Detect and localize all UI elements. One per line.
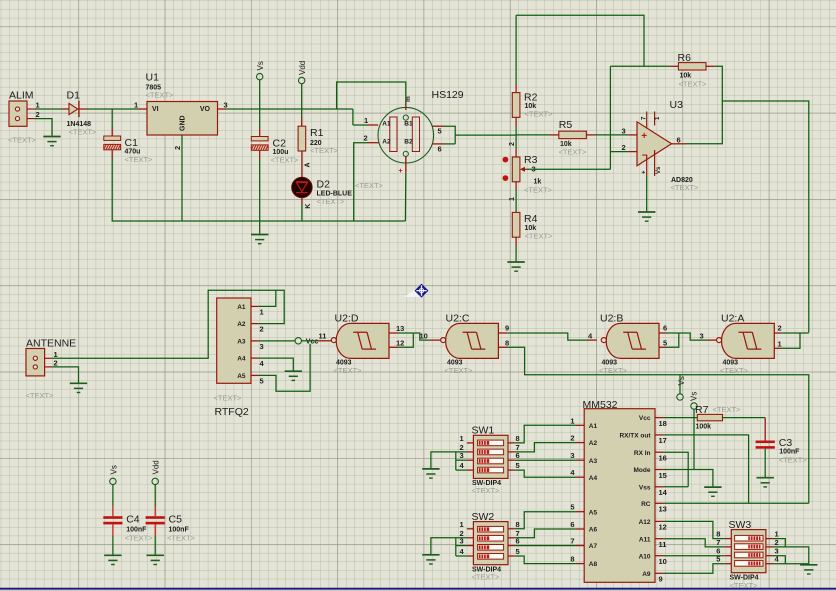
svg-text:8: 8	[516, 520, 520, 529]
wire A10 to SW3.6	[664, 555, 725, 557]
ground (U3)	[638, 212, 655, 221]
svg-text:U2:B: U2:B	[600, 312, 623, 324]
svg-text:A1: A1	[382, 121, 391, 128]
svg-text:6: 6	[677, 135, 681, 144]
pin stub A11 (MM532)	[655, 538, 664, 540]
svg-text:A2: A2	[589, 440, 598, 447]
wire ANTENNE.1 to RTFQ2 A2 loop	[52, 290, 284, 358]
svg-text:Mode: Mode	[634, 467, 651, 474]
svg-text:Vdd: Vdd	[298, 61, 307, 75]
svg-text:A2: A2	[382, 139, 391, 146]
svg-text:−: −	[642, 150, 648, 161]
svg-text:11: 11	[319, 331, 327, 340]
wire SW2.8 to MM532 A5	[515, 512, 576, 529]
svg-text:GND: GND	[180, 115, 187, 131]
svg-text:+: +	[398, 166, 403, 175]
wire RTFQ2 A5 loop to Vcc terminal node	[258, 344, 310, 392]
wire U2:D 12 tie	[398, 333, 413, 347]
wire SW1 tie vertical	[455, 452, 457, 470]
svg-text:5: 5	[570, 503, 574, 512]
wire Vdd terminal through +V rail to R1	[301, 84, 303, 118]
svg-text:RC: RC	[641, 501, 651, 508]
wire SW1.2 to ground	[431, 452, 467, 468]
pin stub right 5 (SW1)	[508, 469, 515, 471]
wire R2 top	[515, 15, 517, 84]
capacitor C1	[104, 136, 121, 150]
dip switch SW3	[731, 530, 766, 573]
svg-text:3: 3	[570, 451, 574, 460]
svg-text:ANTENNE: ANTENNE	[26, 337, 76, 349]
wire U2:C 9 to U2:B output	[507, 333, 587, 340]
pin stub U2:A output 3	[708, 339, 717, 341]
svg-text:MM532: MM532	[583, 399, 618, 411]
wire SW1.5 to MM532 A4	[515, 470, 576, 477]
wire RTFQ2 A3 to Vcc terminal	[258, 340, 295, 342]
svg-text:12: 12	[659, 523, 667, 532]
pin stub C1 bottom	[111, 150, 113, 159]
svg-text:1: 1	[509, 197, 516, 201]
resistor R4	[512, 212, 520, 237]
wire Vs terminal to C4	[112, 485, 114, 506]
pin stub A5 (RTFQ2)	[251, 374, 258, 376]
pin stub R2 bottom	[515, 117, 517, 126]
pin stub A10 (MM532)	[655, 555, 664, 557]
svg-text:<TEXT>: <TEXT>	[334, 366, 363, 375]
ground (C3)	[757, 478, 774, 487]
wire Vs terminal down to Mode	[693, 409, 695, 469]
wire RC long net	[664, 502, 809, 504]
svg-text:2: 2	[775, 538, 779, 547]
svg-text:A5: A5	[237, 373, 246, 380]
wire SW2.5 to MM532 A8	[515, 556, 576, 564]
IC MM532	[584, 409, 655, 583]
wire top feedback	[516, 15, 644, 66]
pin stub RX/TX out (MM532)	[655, 434, 664, 436]
svg-text:<TEXT>: <TEXT>	[310, 146, 339, 155]
svg-text:C1: C1	[125, 137, 139, 149]
svg-text:1: 1	[54, 350, 58, 359]
wire U2:A 1 tie	[781, 333, 800, 348]
wire to U3 inverting input	[610, 151, 628, 153]
pin stub R3 top	[515, 149, 517, 158]
wire Vdd terminal to C5	[154, 485, 156, 506]
svg-text:5: 5	[516, 461, 520, 470]
pin stub HS129 pin1	[368, 124, 379, 126]
svg-text:3: 3	[460, 451, 464, 460]
svg-text:5: 5	[260, 376, 264, 385]
svg-text:Vcc: Vcc	[306, 338, 319, 345]
wire HS129.1 up to +V rail	[352, 109, 354, 125]
svg-text:<TEXT>: <TEXT>	[525, 232, 554, 241]
power terminal Vs (C4)	[110, 478, 116, 484]
wire ANTENNE.2 to ground	[52, 367, 78, 383]
pin stub A8 (MM532)	[576, 563, 585, 565]
wire SW1.4 tie	[456, 469, 467, 471]
wire D2 to ground rail	[301, 205, 303, 221]
wire SW3.2 to ground	[773, 547, 809, 564]
wire SW2.4 tie	[456, 555, 467, 557]
ground (SW1)	[422, 469, 439, 478]
svg-text:2: 2	[570, 434, 574, 443]
pin stub HS129 pin2	[368, 142, 379, 144]
svg-text:D2: D2	[317, 179, 331, 191]
pin stub left 7 (SW3)	[725, 546, 732, 548]
wire SW3.4 to ground net	[773, 563, 809, 565]
pin stub A2 (RTFQ2)	[251, 323, 258, 325]
pin stub U1 pin1	[139, 108, 148, 110]
pin stub left 1 (SW1)	[467, 442, 474, 444]
svg-text:6: 6	[438, 144, 442, 153]
pin stub U2:C output 10	[429, 339, 441, 341]
svg-text:ALIM: ALIM	[9, 90, 34, 102]
svg-text:R6: R6	[678, 52, 692, 64]
svg-text:2: 2	[509, 142, 516, 146]
svg-text:<TEXT>: <TEXT>	[271, 155, 300, 164]
gate U2:D (4093)	[331, 323, 389, 358]
wire U2:B 6	[667, 332, 679, 334]
pin stub C2 top	[259, 128, 261, 137]
svg-text:A4: A4	[237, 356, 246, 363]
pin stub Mode (MM532)	[655, 469, 664, 471]
svg-text:8: 8	[505, 339, 509, 348]
svg-text:+: +	[641, 131, 647, 142]
svg-text:A3: A3	[237, 339, 246, 346]
svg-text:A9: A9	[642, 571, 651, 578]
pin stub C5 bottom	[154, 524, 156, 536]
power terminal Vs (mid)	[677, 394, 683, 400]
wire C4 to ground	[112, 536, 114, 555]
pin stub A2 (MM532)	[576, 442, 585, 444]
svg-text:U3: U3	[670, 99, 684, 111]
svg-text:<TEXT>: <TEXT>	[472, 486, 501, 495]
wire HS129 bottom to ground rail	[404, 173, 406, 221]
svg-text:3: 3	[622, 126, 626, 135]
wire HS129.6	[444, 143, 455, 145]
svg-text:1: 1	[364, 116, 368, 125]
gate U2:A (4093)	[717, 323, 775, 358]
wire A9 to SW3.5	[664, 564, 725, 574]
svg-text:B1: B1	[404, 121, 413, 128]
svg-text:<TEXT>: <TEXT>	[26, 391, 55, 400]
wire SW2 tie vertical	[455, 538, 457, 556]
wire node to C1	[111, 109, 113, 128]
svg-text:VO: VO	[200, 106, 211, 113]
svg-text:Vs: Vs	[256, 61, 265, 70]
pin stub left 2 (SW1)	[467, 451, 474, 453]
pin stub right 6 (SW1)	[508, 459, 515, 461]
pin stub R3 bottom	[515, 181, 517, 190]
wire R7 to C3 node	[723, 417, 766, 419]
svg-text:U2:A: U2:A	[721, 312, 744, 324]
svg-text:14: 14	[659, 488, 668, 497]
origin marker (blue diamond)	[404, 284, 429, 298]
pin stub U2:D 12	[389, 346, 398, 348]
svg-text:<TEXT>: <TEXT>	[355, 181, 384, 190]
pin stub R6 right	[706, 65, 715, 67]
svg-text:VI: VI	[152, 106, 159, 113]
svg-text:1: 1	[460, 434, 464, 443]
svg-text:15: 15	[659, 471, 667, 480]
svg-text:A8: A8	[589, 561, 598, 568]
svg-text:7: 7	[716, 538, 720, 547]
svg-text:Vcc: Vcc	[639, 415, 651, 422]
svg-text:A12: A12	[639, 519, 651, 526]
svg-text:2: 2	[622, 143, 626, 152]
pin stub left 2 (SW2)	[467, 537, 474, 539]
ground (C4)	[104, 555, 121, 564]
wire ALIM.2 to ground	[35, 119, 52, 136]
pin stub Vcc (MM532)	[655, 417, 664, 419]
svg-text:A1: A1	[237, 304, 246, 311]
svg-text:1: 1	[460, 520, 464, 529]
svg-text:A5: A5	[589, 509, 598, 516]
pin stub D2 cathode	[301, 198, 303, 205]
regulator U1 7805	[147, 102, 218, 136]
wire C2 to ground	[259, 159, 261, 234]
pin stub U2:B 5	[659, 346, 667, 348]
resistor R5	[559, 131, 587, 138]
power terminal Vdd (top)	[299, 77, 305, 83]
pin stub A7 (MM532)	[576, 545, 585, 547]
ground (C5)	[147, 555, 164, 564]
pin stub R4 bottom	[515, 237, 517, 245]
pin stub A6 (MM532)	[576, 528, 585, 530]
pin stub U1 VO	[218, 108, 227, 110]
pin stub C1 top	[111, 128, 113, 137]
svg-text:Vss: Vss	[639, 484, 651, 491]
wire R6 left vertical / inverting net	[609, 66, 611, 169]
wire HS129.5 tie	[444, 126, 455, 144]
wire U2:B 5 tie	[667, 333, 679, 347]
svg-text:2: 2	[364, 134, 368, 143]
svg-text:<TEXT>: <TEXT>	[8, 136, 37, 145]
wire ALIM.1 to D1 anode	[35, 108, 62, 110]
svg-text:6: 6	[516, 537, 520, 546]
wire node to R5	[516, 134, 550, 136]
pin stub C3 top	[764, 418, 766, 441]
wire R6 left to vertical	[610, 65, 669, 67]
wire SW3.1 tie	[773, 539, 786, 547]
svg-text:100k: 100k	[696, 423, 712, 430]
wire U2:C 8 long net to MM532 RC	[507, 347, 808, 503]
svg-text:13: 13	[396, 324, 404, 333]
pin stub left 1 (SW2)	[467, 528, 474, 530]
svg-text:R2: R2	[524, 92, 538, 104]
wire U1 GND to ground rail	[181, 135, 183, 221]
ground (SW2)	[422, 555, 439, 564]
pin stub R1 to D2 anode	[301, 151, 303, 177]
svg-text:1: 1	[134, 100, 138, 109]
work area bottom border	[0, 588, 836, 590]
svg-text:2: 2	[778, 324, 782, 333]
svg-text:Vs: Vs	[656, 166, 662, 174]
pin stub A3 (RTFQ2)	[251, 340, 258, 342]
svg-text:RX In: RX In	[634, 450, 651, 457]
svg-text:10k: 10k	[680, 72, 692, 79]
pot adjust dot lower (R3)	[503, 175, 509, 181]
svg-text:2: 2	[260, 325, 264, 334]
svg-text:1: 1	[36, 101, 40, 110]
svg-text:<TEXT>: <TEXT>	[779, 456, 808, 465]
pin stub HS129 top	[405, 102, 407, 110]
wire R6 right to output node	[715, 66, 723, 101]
wire A11 to SW3.7	[664, 539, 725, 547]
svg-text:<TEXT>: <TEXT>	[214, 393, 243, 402]
svg-text:<TEXT>: <TEXT>	[146, 90, 175, 99]
svg-text:6: 6	[663, 324, 667, 333]
svg-text:<TEXT>: <TEXT>	[445, 366, 474, 375]
svg-text:2: 2	[36, 110, 40, 119]
pin stub U2:D output 11	[318, 340, 332, 342]
wire U2:D inputs to U2:C output	[413, 333, 429, 340]
LED D2	[292, 177, 312, 197]
svg-text:A2: A2	[237, 321, 246, 328]
wire SW1.3 tie	[456, 459, 467, 461]
wire Vs terminal to node	[259, 80, 261, 128]
svg-text:<TEXT>: <TEXT>	[125, 155, 154, 164]
pin stub R6 left	[670, 65, 679, 67]
svg-text:Vs: Vs	[690, 392, 699, 401]
wire to Vs terminal (mid)	[679, 375, 681, 394]
pin stub A5 (MM532)	[576, 511, 585, 513]
wire RX/TX out net	[664, 435, 749, 503]
dip switch SW1	[473, 435, 508, 478]
gate U2:C (4093)	[441, 323, 499, 358]
wire Vcc terminal to U2:D output	[302, 340, 318, 342]
svg-text:C4: C4	[126, 514, 140, 526]
svg-text:8: 8	[516, 434, 520, 443]
resistor R1	[298, 126, 306, 151]
wire C3 to ground	[764, 449, 766, 477]
wire SW1.6 to MM532 A3	[515, 459, 576, 461]
wire branch to RTFQ2 A1	[258, 290, 275, 306]
sensor HS129 body	[378, 107, 434, 163]
op-amp U3	[637, 112, 672, 177]
pin stub U2:B output 4	[588, 339, 597, 341]
svg-text:3: 3	[260, 342, 264, 351]
resistor R6	[678, 63, 706, 70]
pin stub left 5 (SW3)	[725, 563, 732, 565]
svg-text:A3: A3	[589, 458, 598, 465]
wire U2:D 13	[398, 332, 413, 334]
wire +V rail from U1	[226, 108, 353, 110]
svg-text:A7: A7	[589, 543, 598, 550]
pin stub right 3 (SW3)	[766, 555, 773, 557]
svg-text:HS129: HS129	[432, 89, 464, 101]
pin stub left 4 (SW2)	[467, 555, 474, 557]
pin stub C4 top	[112, 506, 114, 517]
wire RX In to Vss tie	[664, 452, 689, 487]
ground (Mode)	[704, 487, 721, 496]
gate U2:B (4093)	[601, 323, 659, 358]
wire SW3.3 tie	[773, 556, 786, 564]
pin stub U2:C 8	[498, 346, 507, 348]
wire R5 to U3 +	[595, 134, 628, 136]
pin stub U2:B 6	[659, 332, 667, 334]
pin stub left 4 (SW1)	[467, 469, 474, 471]
power terminal Vdd (C5)	[152, 478, 158, 484]
svg-text:<TEXT>: <TEXT>	[167, 533, 196, 542]
svg-text:100nF: 100nF	[126, 526, 147, 533]
svg-text:<TEXT>: <TEXT>	[679, 79, 708, 88]
pin stub left 3 (SW2)	[467, 545, 474, 547]
svg-text:RTFQ2: RTFQ2	[215, 406, 249, 418]
svg-text:18: 18	[659, 419, 667, 428]
pin stub HS129 bottom	[405, 157, 407, 173]
svg-text:12: 12	[396, 339, 404, 348]
connector J2 ANTENNE	[26, 349, 52, 376]
ground (ALIM)	[43, 137, 60, 146]
wire U3 V- to ground	[646, 176, 648, 211]
pin stub R5 left	[550, 134, 559, 136]
diode D1	[69, 101, 79, 118]
wire U2:B inputs to U2:A output	[679, 333, 708, 340]
svg-text:100nF: 100nF	[779, 448, 800, 455]
wire MM532 Vcc to R7	[664, 417, 698, 419]
pin stub A1 (RTFQ2)	[251, 305, 258, 307]
pin stub U3 pin3	[628, 134, 637, 136]
pin stub right 2 (SW3)	[766, 546, 773, 548]
pin stub R1 top	[301, 118, 303, 127]
svg-text:A10: A10	[639, 553, 651, 560]
svg-text:A11: A11	[639, 536, 651, 543]
ground (SW3)	[800, 565, 817, 574]
wire Mode to ground	[664, 470, 713, 487]
svg-text:Vs: Vs	[109, 465, 118, 474]
svg-text:<TEXT>: <TEXT>	[599, 366, 628, 375]
svg-text:R1: R1	[310, 127, 324, 139]
svg-text:U2:D: U2:D	[335, 312, 359, 324]
svg-text:R5: R5	[559, 119, 573, 131]
svg-text:C2: C2	[273, 138, 287, 150]
svg-text:1: 1	[260, 307, 264, 316]
connector J1 ALIM	[9, 101, 35, 126]
svg-text:7: 7	[570, 537, 574, 546]
svg-text:<TEXT>: <TEXT>	[720, 366, 749, 375]
pin stub Vss (MM532)	[655, 486, 664, 488]
pin stub right 8 (SW2)	[508, 528, 515, 530]
wire RTFQ2 A4 to ground	[258, 358, 293, 370]
svg-text:Vdd: Vdd	[152, 460, 161, 474]
svg-text:D1: D1	[67, 90, 81, 102]
svg-text:11: 11	[659, 540, 667, 549]
pin stub A4 (RTFQ2)	[251, 357, 258, 359]
wire U2:A 2 to feedback	[781, 332, 809, 334]
capacitor C4	[103, 516, 122, 524]
wire R4 to ground	[515, 246, 517, 262]
svg-text:<TEXT>: <TEXT>	[559, 147, 588, 156]
pin stub U2:A 1	[774, 347, 781, 349]
pin stub right 4 (SW3)	[766, 563, 773, 565]
svg-text:<TEXT>: <TEXT>	[317, 197, 346, 206]
wire +V rail to HS129 top pin	[337, 82, 406, 109]
svg-text:5: 5	[438, 127, 442, 136]
svg-text:8: 8	[570, 555, 574, 564]
svg-text:2: 2	[173, 146, 182, 150]
potentiometer R3 body	[512, 157, 520, 182]
pin stub right 1 (SW3)	[766, 538, 773, 540]
power terminal Vs (top)	[257, 73, 263, 79]
pin stub C2 bottom	[259, 150, 261, 159]
pin stub C4 bottom	[112, 524, 114, 536]
wire D1 to U1 VI, node C1	[87, 108, 139, 110]
wire R3 wiper to U3 -	[527, 168, 611, 170]
wire HS129.2 to ground rail	[354, 143, 368, 221]
svg-text:1k: 1k	[534, 178, 542, 185]
wire R3 to R4	[515, 190, 517, 212]
svg-text:5: 5	[716, 555, 720, 564]
pin stub left 6 (SW3)	[725, 555, 732, 557]
